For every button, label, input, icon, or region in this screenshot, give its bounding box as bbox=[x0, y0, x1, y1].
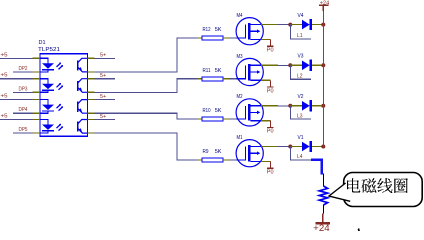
svg-text:5+: 5+ bbox=[100, 53, 106, 59]
svg-text:L3: L3 bbox=[297, 113, 303, 119]
wire collector stub ch3 bbox=[94, 99, 115, 101]
power port P0 ch1 bbox=[267, 40, 274, 47]
svg-text:V2: V2 bbox=[298, 94, 304, 100]
pin source M1 bbox=[261, 161, 271, 163]
wire emitter ch1 to gate row 1 bbox=[94, 38, 197, 72]
resistor R10 bbox=[197, 117, 229, 121]
svg-text:M2: M2 bbox=[237, 94, 243, 100]
svg-text:L1: L1 bbox=[297, 33, 303, 39]
svg-text:M1: M1 bbox=[237, 135, 243, 141]
pin cathode ch4 bbox=[33, 132, 41, 134]
diode V1 bbox=[302, 141, 311, 152]
wire output stub L3 bbox=[290, 106, 311, 119]
wire +5 anode ch4 bbox=[0, 119, 33, 121]
pin collector ch1 bbox=[88, 57, 95, 59]
svg-text:M3: M3 bbox=[237, 54, 243, 60]
junction on +24 rail row 4 bbox=[321, 145, 325, 149]
wire gate 1 bbox=[229, 37, 237, 39]
svg-text:L4: L4 bbox=[297, 154, 303, 160]
phototransistor ch1 bbox=[78, 58, 88, 72]
wire +24 vertical rail bbox=[322, 11, 324, 147]
svg-text:P0: P0 bbox=[267, 88, 274, 94]
power port +24 bottom bbox=[322, 214, 324, 223]
svg-text:5+: 5+ bbox=[100, 73, 106, 79]
svg-text:V4: V4 bbox=[298, 13, 304, 19]
pin emitter ch2 bbox=[88, 91, 95, 93]
wire collector stub ch4 bbox=[94, 119, 115, 121]
svg-text:DP2: DP2 bbox=[19, 66, 28, 72]
wire emitter ch3 to gate row 3 bbox=[94, 113, 197, 119]
transistor M4 bbox=[236, 18, 263, 45]
power port P0 ch2 bbox=[267, 80, 274, 87]
wire DP4 cathode ch3 bbox=[13, 112, 33, 114]
junction at diode V4 anode bbox=[288, 23, 292, 27]
pin diode V2 anode bbox=[290, 105, 302, 107]
junction at diode V3 anode bbox=[288, 63, 292, 67]
svg-text:5K: 5K bbox=[215, 68, 222, 74]
svg-text:M4: M4 bbox=[237, 13, 243, 19]
svg-text:L2: L2 bbox=[297, 74, 303, 80]
LED ch3 bbox=[40, 100, 54, 114]
svg-text:DP5: DP5 bbox=[19, 127, 28, 133]
svg-text:TLP521: TLP521 bbox=[38, 47, 60, 53]
wire diode to +24 rail bbox=[321, 24, 323, 26]
pin diode V1 cathode bbox=[312, 146, 321, 148]
pin source M2 bbox=[261, 120, 271, 122]
svg-text:5K: 5K bbox=[215, 27, 222, 33]
wire diode to +24 rail bbox=[321, 105, 323, 107]
svg-text:5K: 5K bbox=[215, 108, 222, 114]
callout text 电磁线圈 (baked pixel runs) bbox=[347, 180, 407, 193]
svg-text:V3: V3 bbox=[298, 54, 304, 60]
pin drain M1 bbox=[261, 146, 278, 148]
phototransistor ch3 bbox=[78, 100, 88, 114]
svg-text:5+: 5+ bbox=[100, 94, 106, 100]
emission arrows ch4 bbox=[57, 124, 64, 131]
junction at diode V2 anode bbox=[288, 104, 292, 108]
diode V3 bbox=[302, 60, 311, 71]
phototransistor ch2 bbox=[78, 79, 88, 93]
pin diode V3 anode bbox=[290, 64, 302, 66]
pin anode ch1 bbox=[33, 57, 41, 59]
pin diode V2 cathode bbox=[312, 105, 321, 107]
junction at diode V1 anode bbox=[288, 145, 292, 149]
svg-text:+5: +5 bbox=[1, 73, 8, 79]
callout bubble 电磁线圈 bbox=[344, 173, 423, 207]
power port P0 ch3 bbox=[267, 121, 274, 128]
svg-text:P0: P0 bbox=[267, 129, 274, 135]
power port +24 top bbox=[319, 5, 329, 11]
wire coil top bbox=[322, 174, 324, 187]
pin collector ch3 bbox=[88, 99, 95, 101]
svg-text:+5: +5 bbox=[1, 94, 8, 100]
pin drain M4 bbox=[261, 24, 278, 26]
wire output stub L4 bbox=[290, 147, 311, 160]
svg-text:R10: R10 bbox=[203, 108, 211, 114]
pin emitter ch4 bbox=[88, 132, 95, 134]
wire +5 anode ch3 bbox=[0, 99, 33, 101]
wire gate 4 bbox=[229, 159, 237, 161]
svg-text:R12: R12 bbox=[203, 27, 211, 33]
pin diode V1 anode bbox=[290, 146, 302, 148]
callout tail bbox=[329, 183, 350, 201]
wire gate 3 bbox=[229, 118, 237, 120]
pin cathode ch2 bbox=[33, 91, 41, 93]
wire drain 1 bbox=[278, 24, 290, 26]
wire DP3 cathode ch2 bbox=[13, 91, 33, 93]
svg-text:R9: R9 bbox=[203, 149, 209, 155]
LED ch2 bbox=[40, 79, 54, 93]
wire DP5 cathode ch4 bbox=[13, 132, 33, 134]
emission arrows ch1 bbox=[57, 63, 64, 70]
pin source M4 bbox=[261, 39, 271, 41]
svg-text:R11: R11 bbox=[203, 68, 211, 74]
transistor M3 bbox=[236, 58, 263, 85]
diode V2 bbox=[302, 100, 311, 111]
pin collector ch4 bbox=[88, 119, 95, 121]
resistor R11 bbox=[197, 77, 229, 81]
emission arrows ch3 bbox=[57, 104, 64, 111]
junction on +24 rail row 3 bbox=[321, 104, 325, 108]
wire diode to +24 rail bbox=[321, 64, 323, 66]
transistor M2 bbox=[236, 99, 263, 126]
pin emitter ch1 bbox=[88, 71, 95, 73]
inductor coil (zigzag) bbox=[319, 186, 327, 205]
wire diode to +24 rail bbox=[321, 146, 323, 148]
wire emitter ch4 to gate row 4 bbox=[94, 133, 197, 160]
wire coil bottom bbox=[322, 205, 324, 214]
wire drain 3 bbox=[278, 105, 290, 107]
emission arrows ch2 bbox=[57, 83, 64, 90]
svg-text:+5: +5 bbox=[1, 52, 8, 58]
wire drain 4 bbox=[278, 146, 290, 148]
svg-text:DP4: DP4 bbox=[19, 107, 28, 113]
pin emitter ch3 bbox=[88, 112, 95, 114]
pin diode V3 cathode bbox=[312, 64, 321, 66]
power port P0 ch4 bbox=[267, 162, 274, 169]
optocoupler D1 box bbox=[40, 54, 88, 137]
resistor R12 bbox=[197, 36, 229, 40]
wire collector stub ch1 bbox=[94, 57, 115, 59]
wire drain 2 bbox=[278, 64, 290, 66]
junction on +24 rail row 2 bbox=[321, 63, 325, 67]
pin diode V4 cathode bbox=[312, 24, 321, 26]
wire collector stub ch2 bbox=[94, 78, 115, 80]
svg-text:P0: P0 bbox=[267, 48, 274, 54]
svg-text:D1: D1 bbox=[39, 40, 46, 46]
svg-text:5+: 5+ bbox=[100, 114, 106, 120]
pin cathode ch1 bbox=[33, 71, 41, 73]
wire output stub L1 bbox=[290, 25, 311, 39]
stray tick mark bbox=[357, 229, 360, 231]
wire +5 anode ch1 bbox=[0, 57, 33, 59]
pin diode V4 anode bbox=[290, 24, 302, 26]
wire thick to coil bbox=[311, 160, 322, 175]
pin collector ch2 bbox=[88, 78, 95, 80]
wire +5 anode ch2 bbox=[0, 78, 33, 80]
diode V4 bbox=[302, 19, 311, 30]
svg-text:P0: P0 bbox=[267, 170, 274, 176]
pin anode ch4 bbox=[33, 119, 41, 121]
svg-text:+24: +24 bbox=[313, 223, 330, 232]
LED ch1 bbox=[40, 58, 54, 72]
wire output stub L2 bbox=[290, 65, 311, 79]
wire gate 2 bbox=[229, 78, 237, 80]
pin drain M2 bbox=[261, 105, 278, 107]
wire DP2 cathode ch1 bbox=[13, 71, 33, 73]
LED ch4 bbox=[40, 120, 54, 134]
pin drain M3 bbox=[261, 64, 278, 66]
pin anode ch2 bbox=[33, 78, 41, 80]
junction on +24 rail row 1 bbox=[321, 23, 325, 27]
phototransistor ch4 bbox=[78, 120, 88, 134]
svg-text:DP3: DP3 bbox=[19, 86, 28, 92]
svg-text:+5: +5 bbox=[1, 114, 8, 120]
transistor M1 bbox=[236, 140, 263, 167]
resistor R9 bbox=[197, 158, 229, 162]
pin cathode ch3 bbox=[33, 112, 41, 114]
svg-text:+24: +24 bbox=[320, 0, 329, 6]
wire emitter ch2 to gate row 2 bbox=[94, 79, 197, 93]
svg-text:V1: V1 bbox=[298, 135, 304, 141]
pin source M3 bbox=[261, 79, 271, 81]
pin anode ch3 bbox=[33, 99, 41, 101]
svg-text:5K: 5K bbox=[215, 149, 222, 155]
